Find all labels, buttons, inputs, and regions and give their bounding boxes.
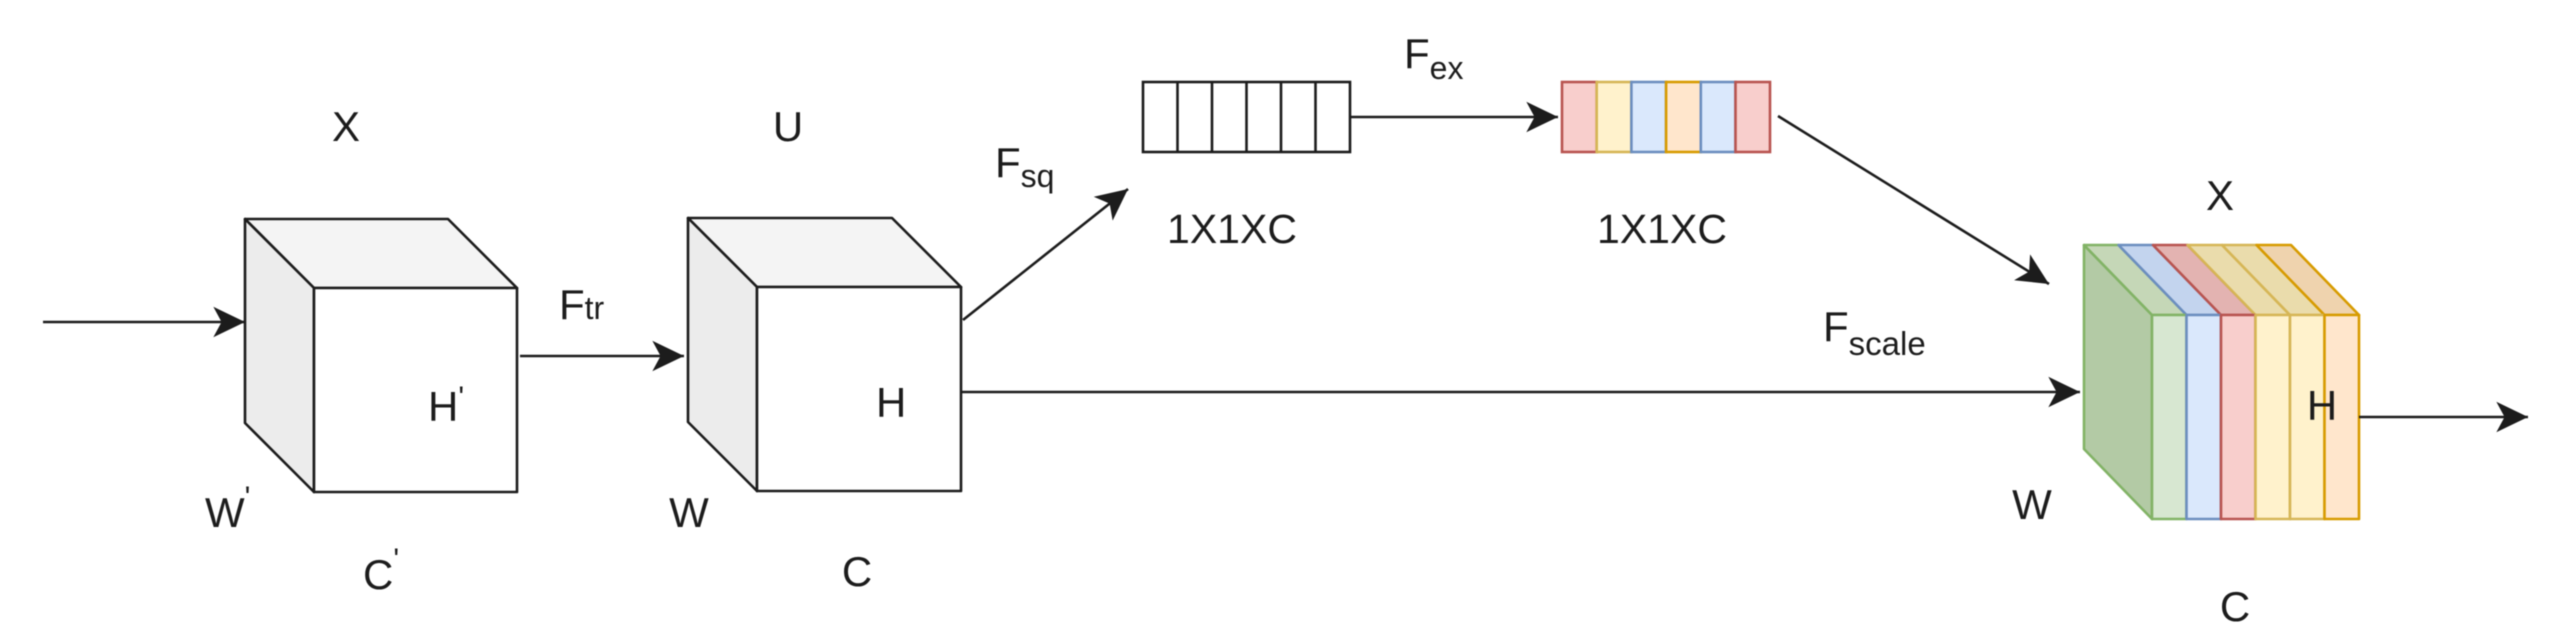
svg-text:Fex: Fex: [1404, 30, 1463, 86]
stack top band yellow 1: [2188, 245, 2291, 315]
svg-text:Fsq: Fsq: [995, 139, 1054, 194]
stack front slice yellow 1: [2256, 315, 2291, 519]
output stack (recalibrated feature map X~): [2084, 245, 2359, 519]
svg-text:C': C': [363, 543, 399, 598]
svg-text:H: H: [2307, 382, 2337, 429]
stack top band blue: [2119, 245, 2222, 315]
stack front slice red: [2221, 315, 2256, 519]
scale arrow (coloured bar to output stack, down-right): [1778, 116, 2049, 284]
svg-text:W': W': [205, 481, 250, 536]
svg-text:H: H: [876, 379, 906, 426]
svg-text:Ftr: Ftr: [559, 281, 605, 328]
stack top band red: [2153, 245, 2256, 315]
cube X' (input feature map): [245, 219, 517, 492]
stack top band orange: [2257, 245, 2360, 315]
stack front slice green: [2152, 315, 2187, 519]
svg-text:1X1XC: 1X1XC: [1597, 206, 1727, 252]
svg-text:X: X: [2206, 172, 2234, 219]
cube U (transformed feature map): [688, 218, 961, 491]
stack left side face (green): [2084, 245, 2152, 519]
svg-text:U: U: [773, 103, 803, 150]
svg-text:W: W: [2012, 481, 2052, 528]
svg-text:W: W: [669, 489, 709, 536]
svg-text:C: C: [2220, 583, 2250, 630]
stack front slice yellow 2: [2290, 315, 2325, 519]
svg-text:C: C: [842, 548, 872, 595]
excitation vector (coloured 1x1xC bar): [1562, 82, 1770, 152]
svg-text:1X1XC: 1X1XC: [1167, 206, 1297, 252]
squeezed vector (white 1x1xC bar): [1143, 82, 1350, 152]
svg-text:X: X: [332, 103, 360, 150]
stack front slice blue: [2187, 315, 2222, 519]
stack top band green: [2084, 245, 2187, 315]
F_scale arrow (long horizontal): [961, 391, 2080, 394]
stack top band yellow 2: [2222, 245, 2325, 315]
output arrow: [2359, 416, 2528, 419]
stack front slice orange: [2325, 315, 2360, 519]
F_tr arrow (between cubes): [520, 355, 684, 358]
svg-text:Fscale: Fscale: [1823, 303, 1926, 362]
F_ex arrow (excitation): [1350, 116, 1558, 119]
F_sq arrow (squeeze, up-right): [963, 189, 1128, 320]
input arrow: [43, 321, 245, 324]
